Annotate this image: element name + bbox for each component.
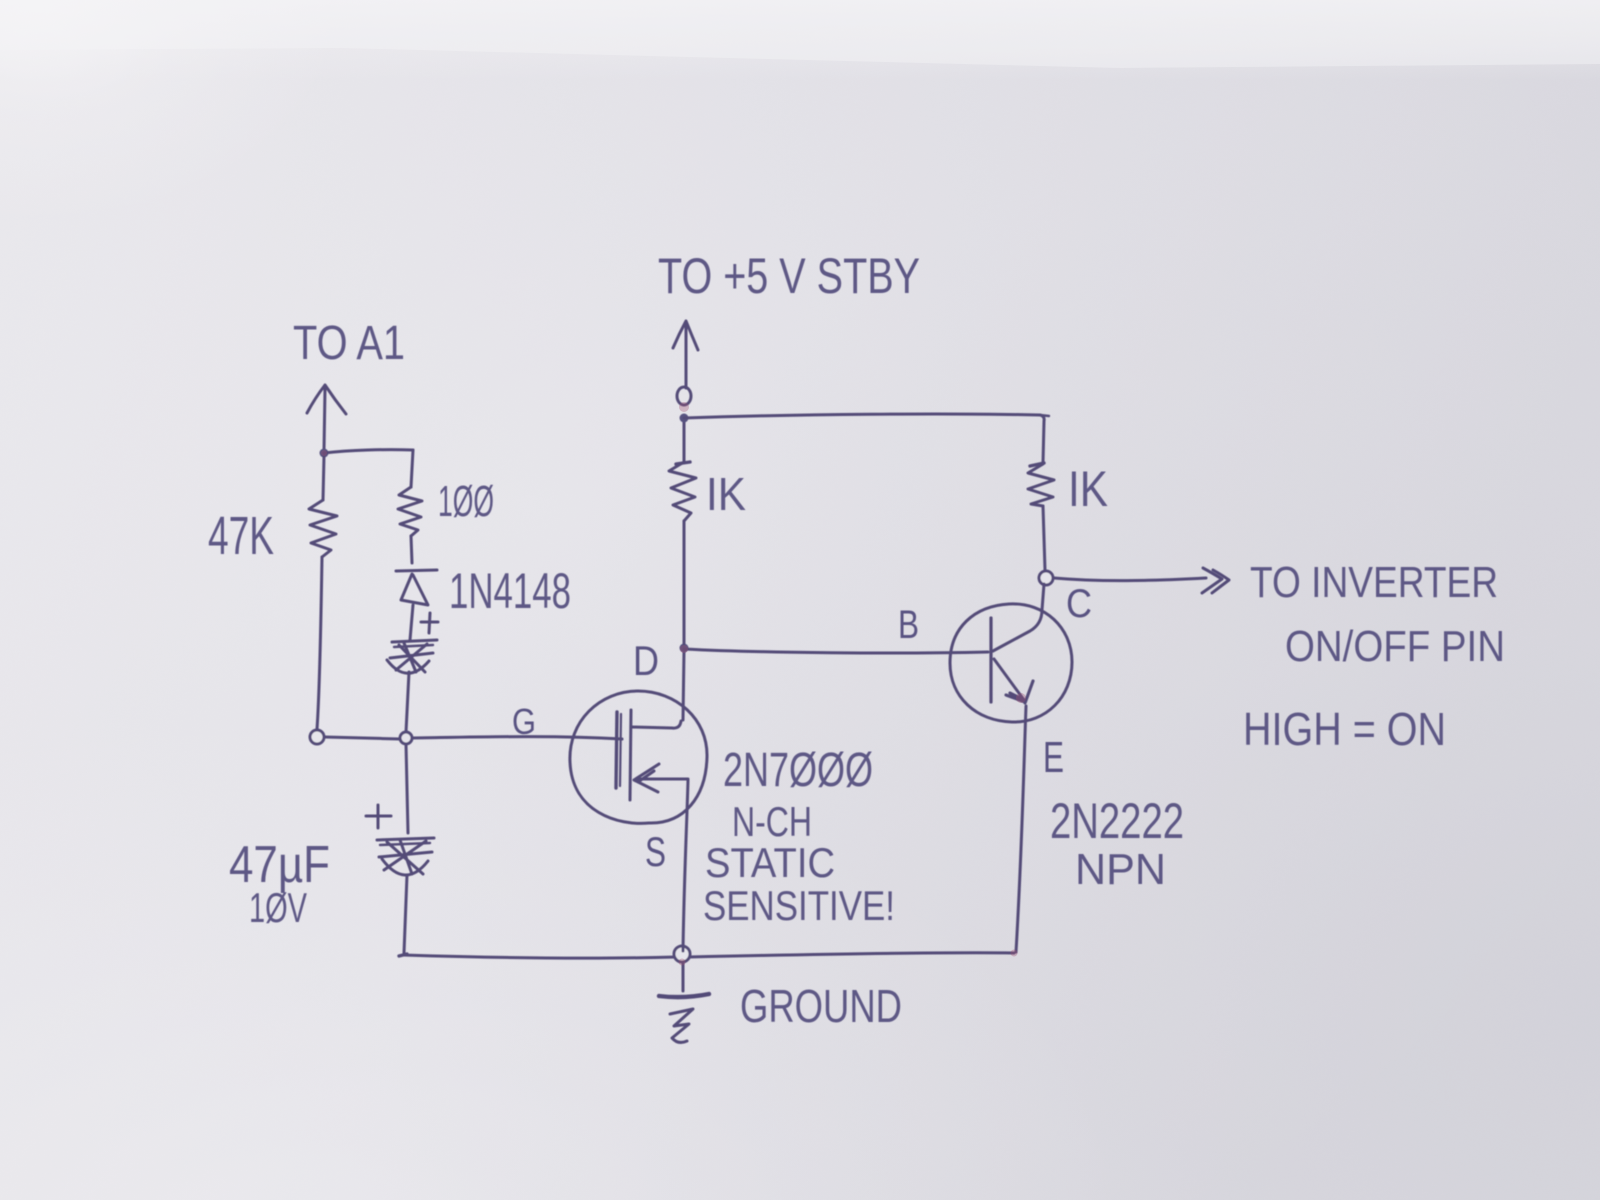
node D junction dot	[680, 644, 689, 653]
svg-text:NPN: NPN	[1075, 845, 1166, 894]
wire C1 to junction	[406, 672, 409, 732]
wire source down to ground node	[683, 780, 688, 951]
transistor Q1 channel bar	[630, 710, 631, 800]
+5V terminal loop	[677, 387, 691, 405]
transistor Q1 source lead with arrow	[634, 764, 688, 792]
capacitor C1 plus sign	[421, 613, 438, 633]
node ground junction	[674, 946, 690, 962]
wire diode to cap C1	[410, 605, 413, 640]
diode 1N4148	[396, 570, 437, 605]
svg-text:N-CH: N-CH	[732, 798, 812, 845]
resistor 100	[398, 487, 422, 536]
svg-text:G: G	[512, 701, 536, 742]
capacitor C2	[377, 838, 434, 875]
svg-text:HIGH = ON: HIGH = ON	[1243, 703, 1446, 755]
svg-text:TO +5 V STBY: TO +5 V STBY	[658, 248, 920, 304]
wire emitter down to bottom rail	[1016, 706, 1026, 952]
wire node C to inverter arrow	[1054, 568, 1229, 593]
node A1 tint	[321, 450, 327, 456]
ground	[659, 964, 709, 1042]
node emitter-rail tint	[1011, 950, 1018, 957]
capacitor C1	[387, 640, 437, 673]
transistor Q2 2N2222 body	[950, 604, 1072, 722]
svg-text:47K: 47K	[208, 506, 274, 566]
wire node A1 down to 47K	[323, 456, 324, 500]
svg-text:ON/OFF PIN: ON/OFF PIN	[1285, 622, 1505, 671]
svg-text:GROUND: GROUND	[740, 980, 902, 1032]
node +5V junction dot	[680, 414, 689, 423]
svg-text:TO INVERTER: TO INVERTER	[1250, 558, 1498, 607]
wire +5V top rail	[684, 414, 1049, 463]
wire node D to base	[684, 649, 988, 653]
svg-text:1ØV: 1ØV	[249, 884, 307, 931]
svg-text:E: E	[1043, 733, 1064, 782]
svg-text:B: B	[898, 603, 919, 647]
paper top edge	[0, 0, 1600, 68]
svg-text:D: D	[633, 637, 659, 684]
wire junction down to cap C2	[406, 744, 408, 833]
svg-text:C: C	[1066, 582, 1092, 626]
wire terminal to junction	[325, 737, 400, 739]
left terminal circle	[310, 730, 324, 744]
resistor R1 1K left	[669, 462, 696, 521]
transistor Q2 emitter lead with arrow	[994, 659, 1033, 703]
node ground tint	[679, 959, 686, 966]
wire 1K to node C	[1043, 506, 1045, 570]
capacitor C2 plus sign	[366, 805, 391, 828]
wire node A1 to 100-ohm branch	[324, 450, 413, 487]
wire drain up to node D	[683, 651, 684, 720]
transistor Q1 gate bar	[616, 712, 621, 788]
svg-text:IK: IK	[706, 468, 746, 520]
transistor Q1 drain lead	[631, 721, 681, 728]
svg-text:IK: IK	[1068, 461, 1108, 517]
svg-text:S: S	[645, 828, 666, 875]
+5V arrow	[673, 321, 698, 388]
svg-text:STATIC: STATIC	[705, 839, 835, 886]
node D tint	[680, 645, 688, 653]
wire gate	[412, 737, 622, 739]
svg-text:1N4148: 1N4148	[449, 563, 571, 619]
wire 47K to left terminal	[317, 557, 322, 729]
wire node D up through 1K to +5V node	[683, 420, 686, 644]
svg-text:2N2222: 2N2222	[1050, 793, 1184, 849]
wire 100 to diode	[411, 536, 412, 563]
resistor 47K	[309, 500, 337, 557]
transistor Q1 2N7000 body	[570, 691, 707, 823]
wire bottom rail	[399, 953, 1014, 958]
svg-text:1ØØ: 1ØØ	[438, 477, 494, 526]
transistor Q2 arrowhead tint	[1016, 693, 1026, 703]
resistor R2 1K right	[1028, 463, 1054, 506]
svg-text:TO A1: TO A1	[293, 317, 405, 370]
transistor Q2 base bar	[989, 618, 992, 702]
node TO A1 arrow	[307, 385, 346, 450]
node A1 junction dot	[320, 449, 329, 458]
node +5V tint	[679, 402, 689, 412]
wire C2 to bottom rail	[404, 875, 407, 953]
junction open circle	[400, 732, 412, 744]
node C open circle	[1039, 571, 1053, 585]
transistor Q2 collector lead	[993, 584, 1044, 651]
svg-text:2N7ØØØ: 2N7ØØØ	[723, 744, 873, 797]
svg-text:SENSITIVE!: SENSITIVE!	[703, 882, 895, 929]
